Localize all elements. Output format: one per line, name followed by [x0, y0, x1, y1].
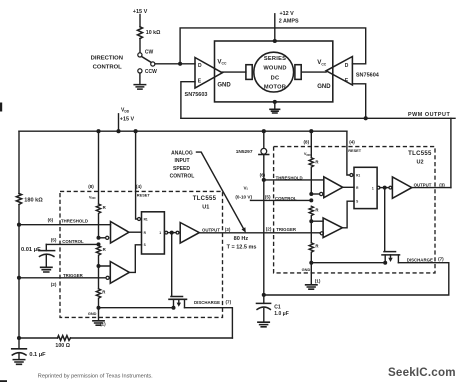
left timing branch: wire down left side	[18, 131, 20, 338]
U2 flip-flop output bubble	[377, 186, 380, 189]
svg-text:1: 1	[372, 187, 374, 191]
svg-text:R1: R1	[356, 173, 360, 177]
capacitor 0.01 uF on control	[45, 244, 47, 250]
svg-text:GND: GND	[302, 267, 311, 272]
PWM output rail	[181, 117, 455, 119]
wire resistor to CW contact	[139, 39, 141, 53]
svg-text:(7): (7)	[225, 300, 231, 305]
U1 output buffer	[176, 231, 179, 234]
switch contact CCW	[138, 69, 142, 73]
U1 trigger comparator	[110, 262, 129, 284]
U1 internal resistor R (bottom)	[96, 289, 100, 308]
U1 chain node trigger comp plus	[97, 264, 101, 268]
brush left	[246, 65, 252, 80]
wire trigger comp to flip-flop S	[342, 201, 354, 228]
svg-text:RESET: RESET	[137, 193, 151, 198]
svg-text:U1: U1	[202, 204, 209, 210]
ground (motor frame)	[270, 109, 280, 113]
svg-text:TRIGGER: TRIGGER	[276, 227, 297, 232]
svg-text:CW: CW	[145, 49, 154, 55]
wire +12V down to motor supply rail	[274, 14, 276, 41]
svg-text:DISCHARGE: DISCHARGE	[194, 300, 220, 305]
ground (0.01uF)	[41, 267, 52, 272]
wire E of SN75603 to PWM rail	[181, 82, 195, 119]
U2 chain node trigger comp plus	[309, 219, 313, 223]
svg-text:(1): (1)	[315, 278, 321, 283]
motor supply frame (VCC/GND rails box)	[215, 41, 333, 102]
svg-text:CONTROL: CONTROL	[93, 65, 123, 71]
switch contact CW	[138, 53, 142, 57]
U1 flip-flop	[142, 212, 165, 254]
switch lever	[142, 57, 151, 63]
wire threshold comp to flip-flop R	[343, 186, 354, 188]
U2 discharge transistor Q2	[384, 188, 386, 251]
U2 pin 3 OUTPUT wire	[412, 187, 451, 189]
svg-text:U2: U2	[416, 160, 423, 166]
svg-text:C1: C1	[274, 305, 281, 311]
svg-text:SeekIC.com: SeekIC.com	[388, 366, 456, 379]
U1 chain node to threshold comp minus	[97, 236, 101, 240]
svg-text:10 kΩ: 10 kΩ	[146, 30, 161, 36]
U2 threshold comparator	[324, 177, 343, 198]
svg-text:DC: DC	[271, 75, 280, 81]
svg-text:(4): (4)	[136, 184, 142, 189]
node U2 gate tap	[383, 186, 387, 190]
wire frame to ground	[274, 102, 276, 109]
resistor R 10 k	[138, 27, 143, 39]
node bottom left	[17, 336, 21, 340]
resistor 180 k	[16, 194, 21, 205]
svg-text:T = 12.5 ms: T = 12.5 ms	[227, 244, 257, 250]
svg-text:INPUT: INPUT	[175, 158, 190, 164]
node U1 gate tap	[170, 231, 174, 235]
node threshold U2 tap	[262, 178, 266, 182]
scan artifact left edge	[0, 103, 2, 112]
node E-604 on PWM rail	[364, 116, 368, 120]
svg-text:S: S	[356, 200, 358, 204]
switch pole	[151, 62, 155, 66]
ground (U1 pin1)	[93, 321, 104, 325]
svg-text:OUTPUT: OUTPUT	[202, 227, 220, 232]
svg-text:WOUND: WOUND	[263, 66, 286, 72]
node U1 pin8 on rail	[96, 129, 100, 133]
U1 chain node control tap	[97, 242, 101, 246]
svg-text:(8): (8)	[303, 139, 309, 144]
svg-text:TLC555: TLC555	[193, 196, 217, 202]
svg-text:TLC555: TLC555	[408, 151, 432, 157]
svg-text:DIRECTION: DIRECTION	[91, 56, 123, 62]
node U1 chain bottom / gnd	[97, 306, 101, 310]
ground (C1)	[258, 322, 269, 327]
svg-text:(6): (6)	[48, 218, 54, 223]
U2 output buffer	[389, 186, 392, 189]
wire analog input to U2 control	[251, 199, 312, 201]
svg-text:(8): (8)	[88, 184, 94, 189]
U1 discharge transistor Q1	[171, 233, 173, 296]
svg-text:+12 V: +12 V	[280, 11, 295, 17]
capacitor C1 1.0 uF	[263, 295, 265, 304]
wire trigger comp to flip-flop S	[129, 245, 141, 273]
node direction signal	[178, 62, 182, 66]
U1 TLC555 dashed boundary	[60, 191, 223, 317]
node U2 chain bottom / gnd	[309, 261, 313, 265]
svg-text:80 Hz: 80 Hz	[234, 236, 249, 242]
svg-text:SERIES: SERIES	[264, 56, 286, 62]
svg-text:(2): (2)	[51, 282, 57, 287]
wire E of SN75604 down to PWM rail	[352, 84, 365, 119]
U1 threshold comparator	[111, 222, 129, 244]
U2 internal resistor R (middle)	[309, 206, 313, 221]
svg-text:(5): (5)	[51, 238, 57, 243]
VDD +15V rail	[19, 130, 347, 132]
svg-text:CONTROL: CONTROL	[62, 239, 84, 244]
svg-text:180 kΩ: 180 kΩ	[24, 198, 43, 204]
wire threshold comp to flip-flop R	[129, 231, 142, 233]
svg-text:SN75603: SN75603	[185, 92, 208, 98]
pointer line from label to U1 output wire	[197, 152, 245, 229]
ground (0.1uF)	[13, 360, 24, 365]
U2 internal resistor R (top)	[309, 158, 313, 194]
svg-text:MOTOR: MOTOR	[264, 85, 286, 91]
brush right	[295, 65, 301, 80]
U1 internal resistor R (middle)	[96, 246, 100, 266]
svg-text:THRESHOLD: THRESHOLD	[61, 219, 88, 224]
node frame bottom to ground	[273, 100, 277, 104]
svg-text:GND: GND	[217, 82, 231, 88]
svg-text:CONTROL: CONTROL	[170, 174, 195, 180]
U1 flip-flop output bubble	[165, 231, 168, 234]
wire chain bottom to transistor source	[311, 262, 385, 264]
svg-text:S: S	[144, 243, 146, 247]
wire direction node up and across to SN75604 D	[180, 28, 366, 64]
wire SN75603 output to motor	[222, 71, 246, 73]
bottom rail to 100 ohm	[19, 337, 232, 339]
svg-text:R1: R1	[144, 217, 148, 221]
wire CCW to ground	[139, 73, 141, 84]
U2 flip-flop	[354, 167, 377, 208]
svg-text:2 AMPS: 2 AMPS	[279, 19, 299, 25]
svg-text:0.1 μF: 0.1 μF	[29, 352, 46, 358]
motor M1 series wound DC motor	[254, 52, 294, 92]
svg-text:VDD: VDD	[304, 151, 311, 157]
svg-text:Reprinted by permission of Tex: Reprinted by permission of Texas Instrum…	[38, 374, 153, 380]
svg-text:(0-10 V): (0-10 V)	[235, 194, 252, 199]
svg-text:VDD: VDD	[89, 194, 96, 200]
node +12V at frame top	[273, 39, 277, 43]
svg-text:ANALOG: ANALOG	[171, 150, 193, 156]
svg-text:(3): (3)	[225, 227, 231, 232]
svg-text:SN75604: SN75604	[356, 73, 380, 79]
svg-text:D: D	[198, 63, 202, 69]
node trigger tap	[17, 276, 21, 280]
svg-text:GND: GND	[317, 84, 331, 90]
driver U4 SN75604	[326, 57, 352, 86]
U2 pin 7 DISCHARGE wire	[264, 263, 449, 295]
svg-text:(5): (5)	[265, 195, 271, 200]
svg-text:0.01 μF: 0.01 μF	[21, 247, 41, 253]
node C1 top	[262, 293, 266, 297]
svg-text:(6): (6)	[260, 172, 266, 177]
node diode branch on rail	[262, 129, 266, 133]
svg-text:1: 1	[159, 231, 161, 235]
wire pole to D input of SN75603	[155, 63, 195, 65]
scan artifact bottom left	[0, 380, 7, 382]
U1 internal resistor R (top)	[96, 204, 100, 238]
svg-text:+15 V: +15 V	[120, 116, 135, 122]
wire U2 output up to PWM rail	[450, 118, 452, 187]
U2 trigger comparator	[323, 218, 342, 238]
node U2 pin8 on rail	[309, 129, 313, 133]
node U1 pin4 on rail	[134, 129, 138, 133]
svg-text:(4): (4)	[349, 139, 355, 144]
svg-text:PWM OUTPUT: PWM OUTPUT	[408, 112, 450, 118]
svg-text:1.0 μF: 1.0 μF	[274, 311, 288, 317]
svg-text:SPEED: SPEED	[173, 166, 190, 172]
U1 pin 3 OUTPUT wire to U2 trigger	[199, 232, 320, 234]
wire motor to SN75604 output	[301, 71, 326, 73]
svg-text:(3): (3)	[439, 183, 445, 188]
svg-text:100 Ω: 100 Ω	[55, 343, 70, 349]
ground (CCW)	[134, 85, 145, 90]
driver U3 SN75603	[195, 58, 222, 89]
node threshold tap	[17, 223, 21, 227]
capacitor 0.1 uF	[18, 338, 20, 349]
wire from +15V to resistor	[139, 15, 141, 27]
svg-text:DISCHARGE: DISCHARGE	[407, 257, 433, 262]
svg-text:OUTPUT: OUTPUT	[414, 183, 432, 188]
svg-text:(7): (7)	[438, 257, 444, 262]
node VDD stub	[116, 129, 120, 133]
svg-text:D: D	[345, 63, 349, 69]
U2 chain node to threshold comp minus	[309, 192, 313, 196]
U2 TLC555 dashed boundary	[274, 147, 435, 273]
U1 pin 7 DISCHARGE wire	[185, 308, 233, 338]
U2 chain node control tap	[309, 198, 313, 202]
resistor 100 ohm	[58, 336, 71, 341]
ground (U2 pin1)	[306, 285, 317, 289]
svg-text:(2): (2)	[266, 226, 272, 231]
diode CR1 1N5297 branch	[263, 131, 265, 295]
svg-text:GND: GND	[88, 311, 97, 316]
svg-text:1N5297: 1N5297	[236, 149, 253, 155]
U2 internal resistor R (bottom)	[309, 243, 313, 263]
wire chain bottom to transistor source	[99, 307, 174, 309]
svg-text:CCW: CCW	[145, 69, 157, 75]
svg-text:RESET: RESET	[348, 148, 362, 153]
svg-text:CONTROL: CONTROL	[275, 196, 297, 201]
